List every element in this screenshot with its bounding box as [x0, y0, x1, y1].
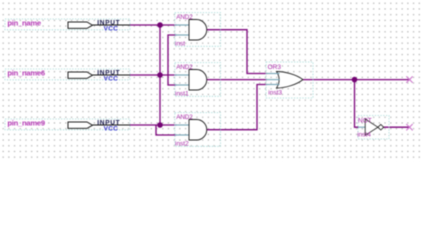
svg-text:inst4: inst4	[357, 132, 371, 139]
svg-text:inst: inst	[175, 41, 185, 48]
svg-text:inst3: inst3	[268, 90, 282, 97]
svg-text:AND2: AND2	[176, 114, 193, 121]
svg-text:OR3: OR3	[268, 64, 282, 71]
svg-text:inst1: inst1	[175, 91, 189, 98]
svg-text:pin_name6: pin_name6	[7, 68, 44, 77]
svg-text:pin_name9: pin_name9	[7, 118, 44, 127]
svg-text:inst2: inst2	[175, 141, 189, 148]
svg-text:AND2: AND2	[176, 14, 193, 21]
svg-text:AND2: AND2	[176, 64, 193, 71]
svg-text:pin_name: pin_name	[7, 18, 40, 27]
svg-text:NOT: NOT	[358, 118, 372, 125]
